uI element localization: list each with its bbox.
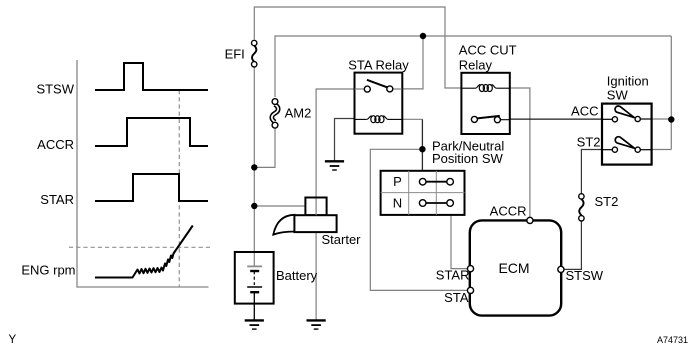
svg-text:STA Relay: STA Relay	[348, 57, 409, 72]
svg-text:AM2: AM2	[285, 106, 312, 121]
svg-text:STA: STA	[444, 290, 469, 305]
ground starter	[307, 320, 326, 329]
svg-text:ENG rpm: ENG rpm	[21, 263, 75, 278]
node junction ignition feed	[668, 116, 674, 122]
switch Park/Neutral Position SW	[381, 171, 465, 215]
wire ACC CUT relay contact to ignition ACC (dark)	[510, 118, 602, 120]
wire AM2 fuse to ignition rail	[275, 36, 671, 97]
wire STA relay coil to ground	[335, 119, 355, 161]
wire ignition ST2 terminal stub	[652, 149, 672, 151]
relay STA Relay	[355, 73, 403, 134]
fuse EFI	[252, 40, 257, 67]
ECM	[467, 217, 564, 315]
svg-text:ACC CUT: ACC CUT	[459, 42, 517, 57]
svg-text:ACC: ACC	[571, 104, 598, 119]
dashed threshold line horizontal	[69, 246, 212, 248]
wire ignition ST2 to fuse ST2	[581, 150, 602, 194]
svg-text:ACCR: ACCR	[37, 137, 74, 152]
node junction battery bus / starter	[251, 203, 257, 209]
svg-text:SW: SW	[607, 88, 629, 103]
ground STA relay coil	[325, 161, 344, 170]
wire STA relay contact to starter	[316, 89, 354, 215]
wire STA relay coil to park/neutral SW	[402, 118, 422, 120]
ground battery	[245, 320, 264, 329]
svg-text:Ignition: Ignition	[607, 74, 649, 89]
wire AM2 jog to battery bus	[254, 128, 275, 167]
svg-text:EFI: EFI	[225, 47, 245, 62]
wire park/neutral SW to ECM STAR	[451, 215, 467, 269]
svg-text:Y: Y	[9, 334, 17, 346]
node junction AM2 rail / STA relay	[420, 33, 426, 39]
svg-text:STAR: STAR	[436, 268, 470, 283]
wire ECM STA loop	[370, 149, 467, 290]
svg-text:STSW: STSW	[566, 268, 604, 283]
svg-text:ACCR: ACCR	[490, 204, 527, 219]
svg-text:A74731: A74731	[657, 335, 688, 345]
wire starter to ground	[315, 232, 317, 320]
node junction battery bus / AM2	[251, 164, 257, 170]
svg-text:STSW: STSW	[36, 82, 74, 97]
svg-text:STAR: STAR	[40, 192, 74, 207]
relay ACC CUT Relay	[461, 73, 509, 134]
switch Ignition SW	[602, 104, 652, 165]
signal STAR waveform	[95, 174, 208, 201]
svg-text:ST2: ST2	[577, 134, 601, 149]
svg-text:ST2: ST2	[595, 194, 619, 209]
svg-text:Starter: Starter	[322, 232, 362, 247]
starter	[273, 198, 336, 235]
dashed timing cursor vertical	[178, 90, 180, 287]
wire battery positive bus (vertical)	[253, 67, 255, 252]
wire ignition SW feed drop	[670, 36, 672, 150]
svg-text:Position SW: Position SW	[432, 151, 504, 166]
svg-text:N: N	[393, 196, 402, 211]
battery	[235, 252, 274, 320]
wire fuse ST2 to ECM STSW	[564, 221, 581, 269]
signal ENG rpm waveform	[95, 226, 193, 278]
wire EFI fuse to top rail and down to ACC CUT relay coil	[254, 7, 461, 88]
node junction park/neutral feed / ECM STA	[419, 146, 425, 152]
svg-text:Battery: Battery	[276, 268, 318, 283]
wire ACC CUT relay coil to ECM ACCR	[510, 88, 530, 217]
signal ACCR waveform	[95, 118, 208, 146]
wire ignition ACC terminal stub	[652, 118, 672, 120]
signal STSW waveform	[95, 63, 208, 90]
fuse ST2	[579, 194, 584, 221]
wire park/neutral SW feed (dark)	[421, 119, 423, 170]
fusible link AM2	[272, 99, 278, 128]
svg-text:P: P	[393, 174, 402, 189]
timing diagram axis	[77, 60, 209, 287]
wire STA relay contact to AM2 rail	[402, 36, 423, 89]
svg-text:Relay: Relay	[459, 57, 493, 72]
svg-text:ECM: ECM	[498, 260, 529, 276]
wire battery to starter feed	[254, 205, 305, 207]
